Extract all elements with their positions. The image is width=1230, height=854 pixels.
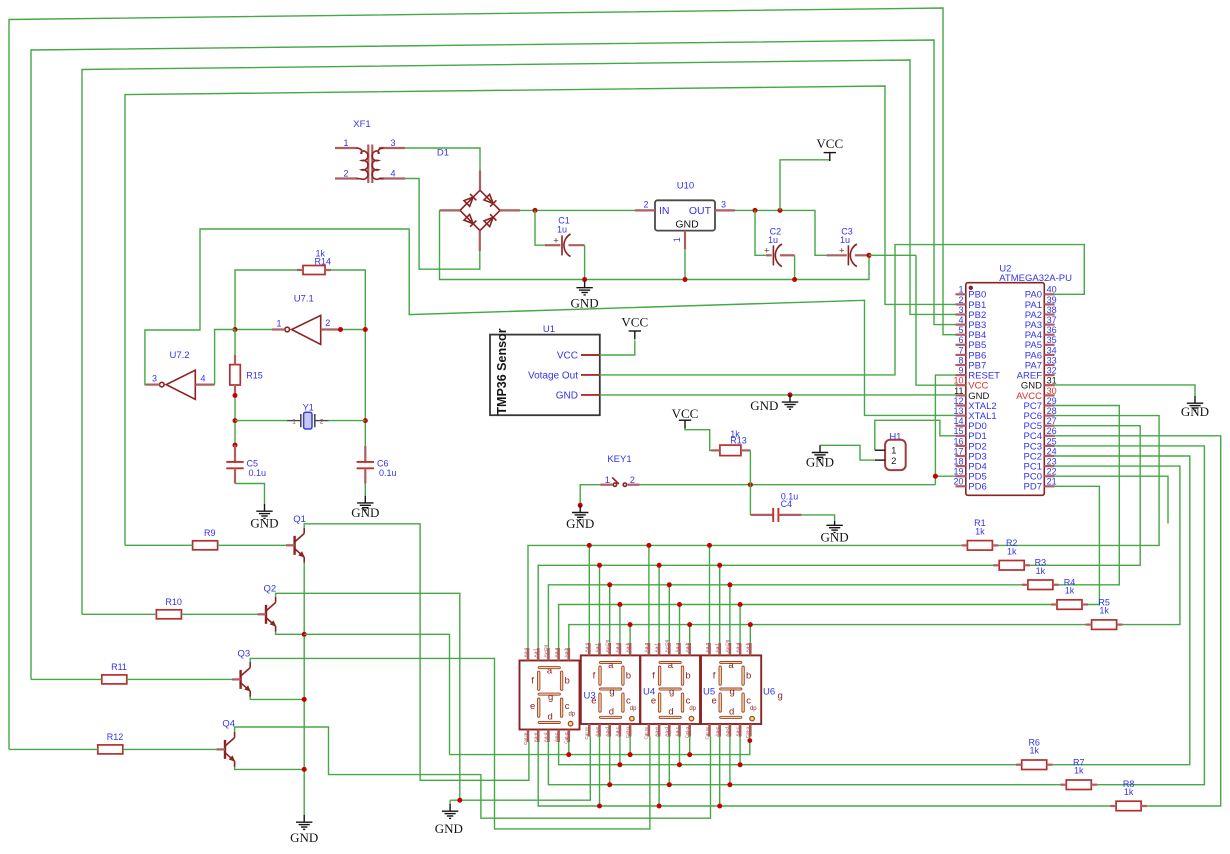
svg-text:13: 13 xyxy=(953,406,963,416)
wire U10 pin1 to bus xyxy=(684,249,686,279)
svg-text:1k: 1k xyxy=(975,526,985,536)
wire display riser top xyxy=(679,605,681,643)
wire R4 to U2 xyxy=(1055,486,1100,604)
svg-text:18: 18 xyxy=(953,457,963,467)
svg-text:Cat re: Cat re xyxy=(704,727,709,740)
junction xyxy=(657,563,662,568)
svg-text:IN: IN xyxy=(659,205,670,217)
junction xyxy=(617,602,622,607)
bridge rectifier D1 xyxy=(437,148,520,252)
svg-text:a: a xyxy=(728,660,734,671)
svg-text:1u: 1u xyxy=(840,235,850,245)
junction xyxy=(302,697,307,702)
wire segment row 4 xyxy=(559,605,1053,649)
wire display riser top xyxy=(729,585,731,643)
7-segment display U6 xyxy=(701,639,761,739)
inverter U7.1 xyxy=(272,294,341,345)
svg-text:GND: GND xyxy=(806,455,834,470)
ground at pin31 xyxy=(1181,396,1209,419)
svg-text:Votage Out: Votage Out xyxy=(528,370,578,381)
svg-text:1: 1 xyxy=(292,418,296,425)
junction xyxy=(687,622,692,627)
wire display riser bottom xyxy=(668,737,670,785)
junction xyxy=(607,582,612,587)
junction xyxy=(363,327,368,332)
svg-text:f: f xyxy=(531,676,534,687)
7-segment display U4 xyxy=(581,639,640,739)
svg-text:GND: GND xyxy=(566,516,594,531)
wire display riser top xyxy=(719,565,721,643)
svg-text:7: 7 xyxy=(958,345,963,355)
svg-text:Aa-c: Aa-c xyxy=(674,726,679,736)
capacitor C4 0.1u xyxy=(750,491,801,522)
wire Q4 emitter xyxy=(235,767,305,770)
svg-text:Aa-f: Aa-f xyxy=(654,643,659,652)
wire KEY1 left to ground xyxy=(580,485,600,506)
wire C3 junction to U2 VCC riser xyxy=(869,254,916,256)
junction xyxy=(707,543,712,548)
junction xyxy=(727,582,732,587)
wire cathode row Q2/gnd xyxy=(450,737,590,801)
svg-text:10: 10 xyxy=(953,376,963,386)
svg-text:Aa-g: Aa-g xyxy=(704,642,709,652)
wire U2 pin19 PD5 stub xyxy=(935,475,955,477)
wire R1 to U2 xyxy=(998,416,1159,546)
svg-text:Aa-a: Aa-a xyxy=(674,642,679,652)
wire XF1 pin3 to bridge xyxy=(405,148,480,171)
resistor R6 1k xyxy=(1016,738,1053,770)
svg-text:40: 40 xyxy=(1047,285,1057,295)
svg-text:C4: C4 xyxy=(781,499,793,509)
power flag VCC (R13) xyxy=(672,406,699,429)
junction xyxy=(533,208,538,213)
svg-text:Aa-d: Aa-d xyxy=(664,727,669,737)
wire R9 to Q1 base xyxy=(125,544,193,546)
svg-text:dp: dp xyxy=(689,706,696,712)
wire display riser top xyxy=(709,545,711,643)
svg-text:dp: dp xyxy=(630,706,637,712)
svg-text:Aa-b: Aa-b xyxy=(625,642,630,652)
svg-text:a: a xyxy=(608,660,614,671)
svg-text:Aa-d: Aa-d xyxy=(725,727,730,737)
wire U2 pin15 PD1 to H1 pin1 xyxy=(875,420,956,450)
svg-text:b: b xyxy=(685,670,690,681)
svg-text:2: 2 xyxy=(958,295,963,305)
svg-text:Q4: Q4 xyxy=(222,718,235,729)
wire R5 to U2 xyxy=(1055,466,1180,624)
svg-text:Cat-g: Cat-g xyxy=(745,727,750,739)
wire segment row 3 xyxy=(548,585,1028,648)
svg-text:21: 21 xyxy=(1047,477,1057,487)
wire net-D: R9 row to U2 pin2 PB1 xyxy=(125,86,956,545)
svg-text:Aa-b: Aa-b xyxy=(685,642,690,652)
svg-text:Aa-g: Aa-g xyxy=(644,642,649,652)
svg-text:Aa-c: Aa-c xyxy=(553,732,558,742)
junction xyxy=(233,327,238,332)
svg-text:Aa-a: Aa-a xyxy=(735,642,740,652)
resistor R10 xyxy=(156,597,181,619)
wire display riser top xyxy=(668,585,670,643)
junction xyxy=(677,762,682,767)
svg-text:KEY1: KEY1 xyxy=(607,454,631,465)
junction xyxy=(597,804,602,809)
wire display riser top xyxy=(609,585,611,643)
svg-text:U5: U5 xyxy=(703,687,715,698)
wire Q2 collector to display2 cathode xyxy=(276,593,460,800)
svg-text:Aa-f: Aa-f xyxy=(594,643,599,652)
svg-text:2: 2 xyxy=(630,475,635,485)
ground emitter rail xyxy=(290,815,318,845)
svg-text:Aa-b: Aa-b xyxy=(564,647,569,657)
junction xyxy=(717,563,722,568)
svg-text:2: 2 xyxy=(325,318,330,328)
svg-text:1u: 1u xyxy=(557,224,567,234)
svg-text:c: c xyxy=(626,696,631,707)
svg-text:Aa-g: Aa-g xyxy=(523,647,528,657)
resistor R3 1k xyxy=(1022,558,1059,590)
wire R13 right to node xyxy=(749,450,751,484)
svg-text:1k: 1k xyxy=(1029,746,1039,756)
svg-text:1k: 1k xyxy=(1065,586,1075,596)
svg-text:23: 23 xyxy=(1047,457,1057,467)
ground bottom-left xyxy=(435,804,463,836)
wire R11 to Q3 base xyxy=(31,678,102,680)
capacitor C3 xyxy=(827,226,869,266)
junction xyxy=(748,482,753,487)
svg-text:c: c xyxy=(686,696,691,707)
svg-text:C5: C5 xyxy=(247,459,259,469)
svg-text:+: + xyxy=(839,246,845,257)
svg-text:26: 26 xyxy=(1047,426,1057,436)
junction xyxy=(566,752,571,757)
svg-text:TMP36 Sensor: TMP36 Sensor xyxy=(495,328,509,414)
wire U2 pin40 PA0 to U1 Votage Out xyxy=(600,245,1085,375)
wire U10 out row xyxy=(735,210,827,255)
svg-text:25: 25 xyxy=(1047,436,1057,446)
svg-text:g: g xyxy=(669,687,674,698)
svg-text:1: 1 xyxy=(958,285,963,295)
svg-text:5: 5 xyxy=(958,325,963,335)
svg-text:Av-Dg: Av-Dg xyxy=(605,639,610,652)
svg-text:dp: dp xyxy=(568,711,575,717)
junction xyxy=(683,277,688,282)
svg-text:Aa-f: Aa-f xyxy=(715,643,720,652)
wire VCC feed xyxy=(780,160,830,211)
resistor R4 1k xyxy=(1051,577,1088,609)
svg-text:d: d xyxy=(547,711,552,722)
svg-text:c: c xyxy=(565,701,570,712)
junction xyxy=(792,277,797,282)
power flag VCC (supply) xyxy=(816,136,843,161)
wire Q3 emitter xyxy=(250,697,304,700)
wire net-A: R12 row to U2 pin5 PB4 xyxy=(9,8,956,749)
svg-text:GND: GND xyxy=(821,529,849,544)
wire display riser top xyxy=(739,605,741,643)
switch KEY1 xyxy=(600,454,639,487)
svg-text:2: 2 xyxy=(320,418,324,425)
svg-text:22: 22 xyxy=(1047,467,1057,477)
svg-text:VCC: VCC xyxy=(621,315,648,330)
svg-text:14: 14 xyxy=(953,416,963,426)
inverter U7.2 xyxy=(145,350,215,399)
junction xyxy=(753,208,758,213)
svg-text:e: e xyxy=(530,701,535,712)
svg-text:12: 12 xyxy=(953,396,963,406)
svg-text:39: 39 xyxy=(1047,295,1057,305)
junction xyxy=(587,543,592,548)
svg-text:Cat-g: Cat-g xyxy=(625,727,630,739)
svg-text:33: 33 xyxy=(1047,355,1057,365)
svg-text:b: b xyxy=(564,676,569,687)
svg-text:VCC: VCC xyxy=(557,350,578,361)
svg-text:GND: GND xyxy=(250,516,278,531)
svg-text:Q3: Q3 xyxy=(238,648,251,659)
svg-text:37: 37 xyxy=(1047,315,1057,325)
resistor R14 1k xyxy=(297,248,331,274)
svg-text:Aa-a: Aa-a xyxy=(553,647,558,657)
svg-text:d: d xyxy=(668,706,673,717)
svg-text:c: c xyxy=(746,696,751,707)
svg-text:24: 24 xyxy=(1047,446,1057,456)
wire R14 left to input node xyxy=(235,270,297,330)
wire display riser bottom xyxy=(729,737,731,785)
svg-text:Aa-f: Aa-f xyxy=(533,648,538,657)
wire display riser bottom xyxy=(658,737,660,807)
svg-text:3: 3 xyxy=(390,138,395,148)
svg-text:9: 9 xyxy=(958,366,963,376)
svg-text:36: 36 xyxy=(1047,325,1057,335)
wire segment row 5 xyxy=(569,625,1092,648)
wire display riser top xyxy=(619,605,621,643)
svg-text:U1: U1 xyxy=(543,324,555,335)
svg-text:16: 16 xyxy=(953,436,963,446)
svg-text:Av-Dg: Av-Dg xyxy=(664,639,669,652)
svg-text:GND: GND xyxy=(675,218,699,230)
svg-text:38: 38 xyxy=(1047,305,1057,315)
svg-text:f: f xyxy=(713,670,716,681)
capacitor C6 0.1u xyxy=(357,446,397,484)
wire display riser top xyxy=(749,625,751,643)
wire display riser bottom xyxy=(629,737,631,755)
junction xyxy=(747,738,752,743)
junction xyxy=(617,762,622,767)
wire display riser top xyxy=(629,625,631,643)
svg-text:34: 34 xyxy=(1047,345,1057,355)
wire U2 pin10 VCC riser xyxy=(916,255,956,385)
svg-text:15: 15 xyxy=(953,426,963,436)
junction xyxy=(738,602,743,607)
wire bridge left to GND bus xyxy=(440,210,870,279)
svg-text:6: 6 xyxy=(958,335,963,345)
junction xyxy=(717,804,722,809)
junction xyxy=(628,622,633,627)
svg-text:30: 30 xyxy=(1047,386,1057,396)
wire R13 left to VCC xyxy=(685,429,711,451)
wire R7 to U2 xyxy=(1055,446,1205,785)
svg-text:19: 19 xyxy=(953,467,963,477)
junction xyxy=(457,798,462,803)
svg-text:a: a xyxy=(547,665,553,676)
resistor R11 xyxy=(102,662,127,684)
wire Q1 emitter rail xyxy=(303,563,305,815)
wire display riser bottom xyxy=(679,737,681,765)
svg-text:Aa-e: Aa-e xyxy=(533,732,538,742)
svg-text:U7.2: U7.2 xyxy=(169,350,189,361)
junction xyxy=(233,393,238,398)
junction xyxy=(677,602,682,607)
svg-text:dp: dp xyxy=(750,706,757,712)
7-segment display U5 xyxy=(640,639,700,739)
junction xyxy=(657,804,662,809)
wire U2 pin22 PC0 xyxy=(1055,476,1168,523)
wire R2 to U2 xyxy=(1030,426,1140,566)
capacitor C5 0.1u xyxy=(226,445,266,483)
svg-text:d: d xyxy=(609,706,614,717)
svg-text:32: 32 xyxy=(1047,366,1057,376)
transistor Q1 xyxy=(286,514,306,563)
junction xyxy=(607,782,612,787)
svg-text:1k: 1k xyxy=(1074,766,1084,776)
svg-text:Aa-g: Aa-g xyxy=(584,642,589,652)
wire display riser top xyxy=(648,545,650,643)
svg-text:Aa-d: Aa-d xyxy=(605,727,610,737)
svg-text:g: g xyxy=(548,692,553,703)
svg-text:17: 17 xyxy=(953,446,963,456)
resistor R15 xyxy=(230,330,263,396)
junction xyxy=(667,782,672,787)
header H1 xyxy=(875,431,906,470)
svg-text:Av-Dg: Av-Dg xyxy=(543,644,548,657)
svg-text:3: 3 xyxy=(721,199,726,209)
svg-text:Av-Dg: Av-Dg xyxy=(725,639,730,652)
svg-text:GND: GND xyxy=(1181,404,1209,419)
wire display riser top xyxy=(588,545,590,643)
svg-text:U6: U6 xyxy=(763,687,775,698)
svg-text:31: 31 xyxy=(1047,376,1057,386)
wire Q4 collector to display4 cathode xyxy=(235,727,711,818)
wire display riser top xyxy=(658,565,660,643)
svg-text:R9: R9 xyxy=(204,528,216,538)
svg-text:a: a xyxy=(668,660,674,671)
resistor R2 1k xyxy=(993,538,1030,570)
svg-text:Aa-e: Aa-e xyxy=(654,727,659,737)
svg-text:f: f xyxy=(593,670,596,681)
svg-text:35: 35 xyxy=(1047,335,1057,345)
wire segment row 1 xyxy=(528,545,961,648)
junction xyxy=(778,208,783,213)
svg-text:1: 1 xyxy=(891,446,896,457)
power flag VCC (U1) xyxy=(621,315,648,340)
svg-text:g: g xyxy=(778,691,783,702)
wire Q1 collector xyxy=(304,524,529,781)
wire C2 to bus xyxy=(794,255,796,279)
wire bottom row R7 (pin3s) xyxy=(548,742,1060,785)
svg-text:C6: C6 xyxy=(377,459,389,469)
wire display riser bottom xyxy=(719,737,721,807)
wire display riser top xyxy=(689,625,691,643)
wire U2 pin9 RESET to key node xyxy=(935,375,955,485)
svg-text:R15: R15 xyxy=(246,370,263,380)
wire U7.1 input node xyxy=(235,329,272,331)
transistor Q3 xyxy=(232,648,251,697)
wire R15 bottom column xyxy=(234,396,236,446)
svg-text:U4: U4 xyxy=(643,687,655,698)
svg-text:29: 29 xyxy=(1047,396,1057,406)
svg-text:Aa-c: Aa-c xyxy=(735,726,740,736)
svg-text:GND: GND xyxy=(556,390,578,401)
svg-text:f: f xyxy=(652,670,655,681)
ground KEY1 xyxy=(566,505,594,531)
svg-text:2: 2 xyxy=(343,169,348,179)
svg-text:1k: 1k xyxy=(1036,566,1046,576)
wire H1 pin2 to ground xyxy=(820,445,875,460)
junction xyxy=(646,543,651,548)
wire Q2 emitter xyxy=(276,632,305,635)
svg-text:4: 4 xyxy=(390,169,395,179)
wire KEY1 node row xyxy=(640,484,936,486)
svg-text:Aa-e: Aa-e xyxy=(715,727,720,737)
junction xyxy=(867,253,872,258)
resistor R9 xyxy=(193,528,218,550)
svg-text:GND: GND xyxy=(290,830,318,845)
resistor R5 1k xyxy=(1086,597,1123,629)
capacitor C2 xyxy=(764,226,795,266)
svg-text:d: d xyxy=(729,706,734,717)
ground C6 xyxy=(351,496,379,520)
svg-text:0.1u: 0.1u xyxy=(249,468,267,478)
svg-text:VCC: VCC xyxy=(672,406,699,421)
svg-text:8: 8 xyxy=(958,355,963,365)
wire U2 pin31 GND to ground xyxy=(1055,385,1195,396)
wire display riser bottom xyxy=(739,737,741,765)
wire display riser top xyxy=(599,565,601,643)
svg-text:1u: 1u xyxy=(768,235,778,245)
svg-text:4: 4 xyxy=(958,315,963,325)
crystal Y1 xyxy=(235,402,365,429)
svg-text:OUT: OUT xyxy=(689,205,712,217)
svg-text:Cat re: Cat re xyxy=(644,727,649,740)
wire U1 VCC to flag xyxy=(600,340,635,355)
junction xyxy=(363,418,368,423)
wire XF1 pin4 to bridge bottom xyxy=(405,179,480,270)
svg-text:PD7: PD7 xyxy=(1024,482,1042,493)
junction xyxy=(582,277,587,282)
svg-text:3: 3 xyxy=(958,305,963,315)
junction xyxy=(738,762,743,767)
transistor Q2 xyxy=(257,583,276,632)
junction xyxy=(233,443,238,448)
resistor R12 xyxy=(98,732,123,754)
resistor R7 1k xyxy=(1060,758,1097,790)
svg-text:GND: GND xyxy=(571,295,599,310)
wire row to ground xyxy=(449,800,451,804)
junction xyxy=(233,418,238,423)
svg-text:U7.1: U7.1 xyxy=(294,294,314,305)
svg-text:U3: U3 xyxy=(584,691,596,702)
junction xyxy=(302,767,307,772)
svg-text:Cat re: Cat re xyxy=(523,732,528,745)
transistor Q4 xyxy=(216,718,235,767)
svg-text:Cat-g: Cat-g xyxy=(685,727,690,739)
svg-text:Aa-d: Aa-d xyxy=(543,732,548,742)
junction xyxy=(727,782,732,787)
svg-text:11: 11 xyxy=(954,386,963,396)
svg-text:b: b xyxy=(626,670,631,681)
resistor R8 1k xyxy=(1110,779,1147,811)
wire Q3 collector to display3 cathode xyxy=(250,658,650,829)
svg-text:Aa-e: Aa-e xyxy=(594,727,599,737)
svg-text:1k: 1k xyxy=(1099,606,1109,616)
